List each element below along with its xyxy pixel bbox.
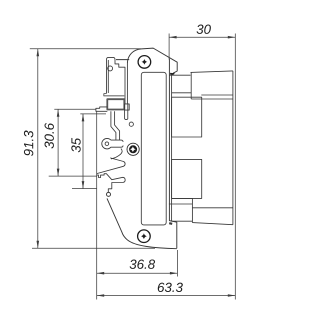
dimension text 30 (197, 25, 211, 34)
body right edge (232, 71, 234, 225)
rail bar outline (107, 57, 126, 104)
dimension 35 extension line top (80, 113, 106, 115)
clip zigzag descender inner (115, 111, 120, 140)
dimension text 35 (71, 138, 80, 153)
dimension 91.3 arrow bottom (37, 241, 40, 249)
clip second strip (125, 104, 128, 120)
dimension 91.3 extension line bottom (32, 247, 155, 249)
body left edge (171, 75, 173, 221)
block F top (192, 207, 233, 209)
T piece right of flange (124, 104, 129, 110)
dimension 30 extension line left (168, 34, 170, 60)
bracket right edge (169, 59, 176, 249)
dimension 91.3 arrow top (37, 49, 40, 57)
dimension 63.3 line (97, 295, 236, 297)
dimension 30.6 extension line bottom (49, 175, 97, 177)
dimension text 91.3 (24, 131, 33, 156)
dimension 30.6 arrow bottom (57, 169, 60, 177)
block E bottom (172, 220, 193, 222)
rail bar hole (108, 66, 113, 71)
dimension 30/63.3 extension line right (234, 34, 236, 300)
screw S1 (138, 56, 151, 69)
connector from keyhole to upper arm (111, 149, 122, 159)
dimension 91.3 extension line top (30, 48, 141, 50)
block F bottom slope (192, 223, 233, 225)
neck rect A bottom (172, 92, 192, 94)
top-right block bottom (201, 94, 233, 96)
dimension 30.6 line (57, 109, 59, 176)
dimension 30 arrow left (169, 36, 177, 39)
rail bar inner left line (107, 60, 109, 93)
dimension 35 line (82, 114, 84, 189)
small hole on bracket face (129, 122, 133, 126)
bracket slope foot dark blob (170, 72, 174, 75)
dimension 36.8/63.3 extension line left (96, 111, 98, 299)
dimension 30.6 arrow top (57, 109, 60, 117)
body top slope (191, 71, 233, 73)
left tab of clip (96, 107, 107, 111)
top-right block bottom left step (191, 98, 233, 100)
block D top (172, 197, 193, 199)
dimension 35 extension line bottom (72, 188, 97, 190)
screw S2 (127, 143, 139, 155)
rail flange square (107, 99, 124, 109)
dimension 30 line (169, 36, 235, 38)
rail flange connect line (104, 94, 125, 96)
block B (172, 97, 202, 137)
dimension 36.8 arrow left (97, 272, 105, 275)
dimension 36.8 arrow right (170, 272, 178, 275)
bracket recess edge right of rail (126, 63, 128, 104)
lower hook top edge with tab (97, 174, 125, 193)
dimension 35 arrow top (82, 114, 85, 122)
keyhole tab outer (102, 138, 123, 149)
dimension text 36.8 (130, 260, 156, 269)
dimension 30 arrow right (228, 36, 236, 39)
bracket bottom curve (107, 198, 177, 248)
dimension 63.3 arrow right (228, 294, 236, 297)
central slot (141, 72, 166, 225)
dimension 36.8 extension line right (176, 250, 178, 277)
block D/E right edge (191, 198, 193, 222)
keyhole tab hole (105, 142, 109, 146)
bracket top outline with hump and slope (116, 48, 177, 73)
neck top line (169, 74, 190, 76)
dimension 63.3 arrow left (97, 294, 105, 297)
neck rect A right (190, 72, 192, 99)
upper spring arm lobe (97, 158, 125, 174)
block C (172, 159, 202, 198)
dimension text 63.3 (158, 283, 183, 292)
clip zigzag descender outer (111, 111, 116, 140)
dimension 30.6 extension line top (54, 108, 96, 110)
dimension 35 arrow bottom (82, 181, 85, 189)
block D/E divider (169, 203, 193, 205)
bracket lower hole (107, 192, 111, 196)
dimension text 30.6 (45, 123, 54, 149)
dimension 36.8 line (97, 272, 178, 274)
bracket bottom-right dark step (169, 222, 172, 225)
dimension 91.3 line (37, 49, 39, 248)
screw S3 (138, 230, 151, 243)
